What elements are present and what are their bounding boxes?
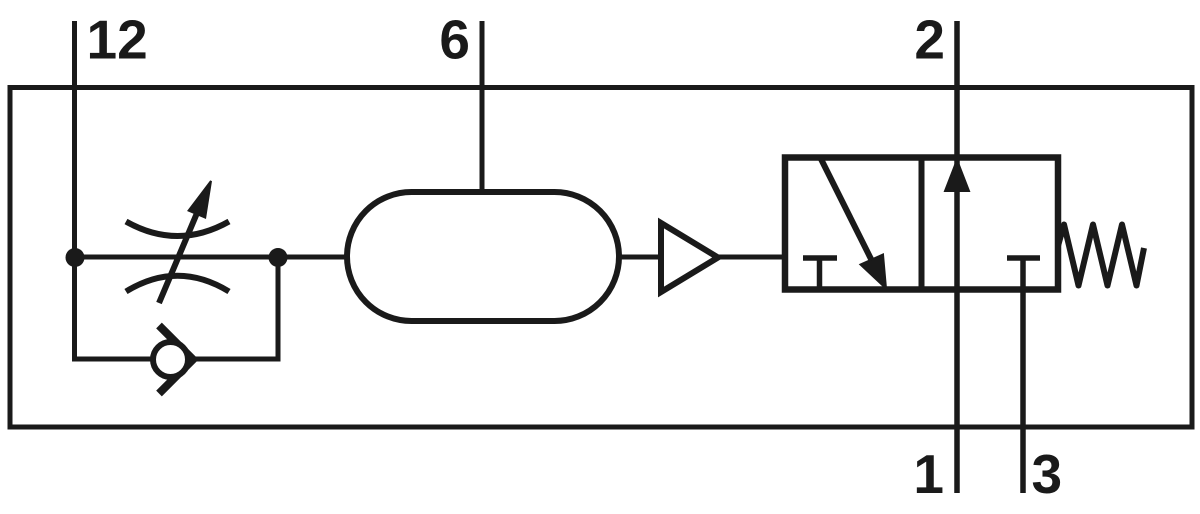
- svg-text:2: 2: [914, 9, 945, 71]
- svg-text:12: 12: [87, 9, 148, 71]
- svg-text:6: 6: [439, 9, 470, 71]
- svg-text:1: 1: [913, 443, 944, 505]
- svg-text:3: 3: [1032, 443, 1063, 505]
